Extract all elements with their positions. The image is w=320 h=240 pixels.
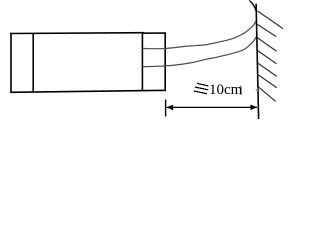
hatch 6	[258, 75, 277, 88]
divider left	[32, 33, 34, 92]
right arrowhead	[251, 105, 258, 111]
geq symbol stroke2	[195, 87, 208, 90]
wall top flick	[249, 1, 256, 13]
geq symbol stroke3	[194, 91, 207, 94]
small gray triangle artifact	[255, 88, 258, 92]
wire upper	[143, 20, 257, 49]
geq symbol stroke1	[197, 83, 209, 86]
dimension tick	[165, 100, 167, 117]
wire lower	[143, 36, 257, 67]
hatch 7	[258, 87, 276, 102]
dimension line	[167, 106, 257, 108]
hatch 5	[258, 63, 277, 76]
left arrowhead	[166, 105, 173, 111]
wall	[256, 4, 259, 119]
blue fringe on m	[240, 86, 242, 95]
hatch 3	[257, 38, 276, 52]
hatch 4	[258, 51, 277, 64]
hatch 1	[258, 11, 284, 29]
device box outline	[11, 33, 165, 93]
hatch 2	[257, 24, 276, 36]
divider right	[141, 33, 143, 91]
label 10cm	[209, 82, 242, 99]
